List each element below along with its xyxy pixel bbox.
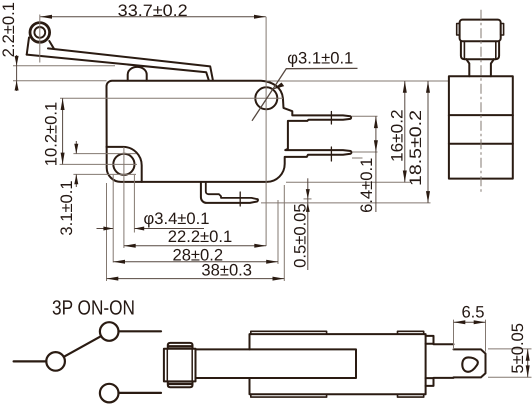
roller band bottom — [168, 381, 193, 387]
schematic terminal circle NO — [100, 322, 119, 341]
schematic wire NO — [119, 330, 162, 332]
dimension 0.5±0.05 — [307, 178, 309, 270]
collar step bottom — [426, 378, 434, 386]
plunger neck (side view) — [466, 59, 494, 76]
dimension 6.4±0.1 — [375, 116, 377, 212]
switch body outline (front view) — [107, 81, 352, 182]
dimension φ3.4±0.1 — [97, 228, 205, 230]
28 right extension — [277, 200, 279, 264]
body parting line 2 — [449, 143, 513, 145]
dimension 38±0.3 — [107, 278, 285, 280]
roller band top — [168, 343, 193, 349]
dimension 6.5 — [454, 321, 486, 323]
lever strip (bottom view) — [196, 349, 357, 378]
hinge lever arm — [27, 55, 209, 80]
svg-text:φ3.1±0.1: φ3.1±0.1 — [287, 49, 353, 68]
body right edge extension — [283, 185, 285, 281]
svg-text:16±0.2: 16±0.2 — [388, 109, 407, 162]
svg-text:6.5: 6.5 — [461, 303, 484, 322]
roller pivot tab left — [457, 24, 460, 36]
bent terminal bottom extension — [261, 202, 431, 204]
schematic terminal circle NC — [100, 384, 119, 403]
svg-text:18.5±0.2: 18.5±0.2 — [406, 110, 425, 186]
dimension 3.1±0.1 — [75, 141, 77, 187]
body parting line 1 — [449, 114, 513, 116]
dimension 10.2±0.1 — [62, 98, 64, 164]
terminal 3 (common, bent) — [201, 182, 258, 203]
top-right hole vertical centreline / extension — [265, 17, 267, 246]
svg-text:3.1±0.1: 3.1±0.1 — [57, 180, 76, 235]
svg-text:2.2±0.1: 2.2±0.1 — [0, 2, 18, 57]
bent terminal top surface tick — [304, 198, 312, 200]
svg-text:10.2±0.1: 10.2±0.1 — [42, 102, 61, 166]
leader line φ3.1 — [252, 68, 358, 120]
lever holder (side view) — [461, 41, 499, 59]
svg-text:33.7±0.2: 33.7±0.2 — [118, 1, 188, 20]
dimension 16±0.2 — [404, 81, 406, 182]
5 extension lines — [488, 349, 532, 377]
schematic terminal circle COM — [46, 352, 65, 371]
schematic wire NC — [119, 392, 162, 394]
svg-text:5±0.05: 5±0.05 — [508, 323, 527, 374]
hole bottom tangent line — [73, 173, 136, 175]
dimension 22.2±0.1 — [124, 245, 266, 247]
dimension 5±0.05 — [527, 349, 529, 377]
roller outer — [30, 23, 50, 43]
terminal blade (bottom view) — [454, 349, 486, 377]
hole horizontal centreline (bottom-left) — [60, 163, 137, 165]
terminal2 lower stub line — [352, 157, 363, 159]
svg-text:6.4±0.1: 6.4±0.1 — [357, 158, 376, 213]
roller inner edges — [167, 349, 192, 382]
lever arms (side view) — [464, 41, 495, 59]
dimension 33.7±0.2 — [40, 16, 266, 18]
top-right hole horizontal centreline — [60, 97, 283, 99]
lever free position line — [13, 65, 115, 67]
rail tab bottom-left — [251, 394, 327, 397]
roller centreline — [39, 15, 41, 63]
terminal tick T3 — [239, 192, 241, 206]
dimension 28±0.2 — [113, 261, 278, 263]
body bottom extension (right) — [286, 181, 412, 183]
rail tab top-left — [251, 331, 327, 334]
schematic switch blade — [64, 336, 101, 357]
body (side view) — [449, 76, 513, 178]
mounting hole top-right φ3.1 — [255, 87, 277, 109]
svg-text:3P ON-ON: 3P ON-ON — [52, 297, 135, 320]
terminal2 centre extension — [353, 151, 378, 153]
svg-text:22.2±0.1: 22.2±0.1 — [168, 227, 232, 246]
hole right-edge extension — [133, 175, 135, 233]
svg-text:38±0.3: 38±0.3 — [201, 260, 252, 279]
rail tab bottom-right — [398, 394, 424, 397]
terminal1 centre extension — [352, 115, 378, 117]
body (bottom view) — [250, 334, 426, 394]
roller (bottom view) — [164, 349, 196, 382]
dimension 18.5±0.2 — [427, 81, 429, 203]
terminal tick T2 — [330, 147, 332, 161]
hole left-edge extension — [112, 175, 114, 263]
mounting hole bottom-left φ3.4 — [113, 154, 134, 175]
terminal hole — [462, 357, 478, 371]
rail tab top-right — [398, 331, 424, 334]
dimension texts (front view) — [0, 1, 425, 280]
terminal neck (bottom view) — [434, 344, 454, 378]
svg-text:φ3.4±0.1: φ3.4±0.1 — [143, 209, 209, 228]
roller inner — [34, 27, 45, 38]
hole top tangent line — [73, 153, 136, 155]
dimension 2.2±0.1 — [16, 55, 18, 91]
side view centreline — [480, 10, 482, 194]
hole centre extension — [123, 147, 125, 248]
collar step top — [426, 336, 434, 344]
terminal tick T1 — [330, 112, 332, 125]
6.5 extension lines — [454, 320, 486, 352]
body top extension (left) — [13, 80, 107, 82]
roller pivot tab right — [501, 24, 504, 36]
plunger (push button dome) — [128, 67, 147, 81]
body top extension (right) — [267, 80, 448, 82]
extension and centre lines (front view) — [13, 15, 448, 282]
body left edge extension — [106, 183, 108, 281]
schematic wire left — [14, 360, 47, 362]
roller (side view) — [460, 20, 501, 42]
mounting hole boss (bottom-left) — [107, 147, 142, 182]
svg-text:0.5±0.05: 0.5±0.05 — [291, 203, 310, 267]
dimensions (bottom view) — [454, 320, 532, 378]
dimensions (front view) — [15, 15, 430, 281]
